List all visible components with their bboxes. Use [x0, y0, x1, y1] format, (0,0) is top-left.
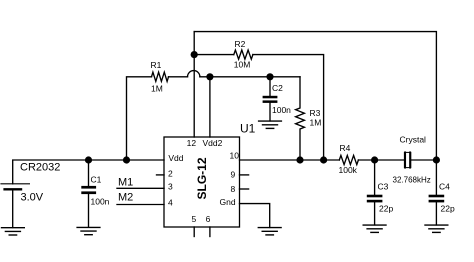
wire M2 to pin 4: [117, 204, 164, 206]
svg-text:C3: C3: [378, 182, 389, 192]
node junction Vdd2 branch: [206, 73, 213, 80]
wire R1 to hop: [169, 76, 188, 78]
resistor R1: [152, 72, 169, 81]
wire R4 to crystal: [358, 159, 404, 161]
svg-text:100k: 100k: [339, 165, 358, 175]
svg-text:Gnd: Gnd: [220, 197, 236, 207]
wire crystal right to node: [411, 159, 437, 161]
capacitor C2 plates: [263, 96, 278, 103]
svg-text:4: 4: [168, 198, 173, 208]
svg-text:1M: 1M: [151, 83, 163, 93]
ground (IC Gnd): [258, 228, 281, 235]
node junction C3 / crystal left: [371, 156, 378, 163]
svg-text:CR2032: CR2032: [20, 162, 60, 174]
svg-text:22p: 22p: [441, 203, 455, 213]
ground (C1): [77, 227, 100, 234]
svg-text:C4: C4: [439, 182, 450, 192]
node junction R3 bottom: [296, 156, 303, 163]
svg-text:U1: U1: [240, 122, 256, 136]
svg-text:R3: R3: [310, 108, 321, 118]
wire C3 top: [374, 160, 376, 195]
svg-text:10M: 10M: [234, 59, 251, 69]
node junction R1 branch on VDD rail: [123, 156, 130, 163]
wire C2 top: [269, 77, 271, 96]
capacitor C1 plates: [81, 186, 96, 194]
battery BT1 CR2032 short plate: [5, 188, 21, 190]
svg-text:100n: 100n: [272, 105, 291, 115]
battery BT1 CR2032 long plate: [1, 183, 29, 185]
wire top loop from pin12 net to crystal right node: [194, 32, 436, 160]
svg-text:32.768kHz: 32.768kHz: [393, 176, 431, 185]
node junction C1 on VDD rail: [85, 156, 92, 163]
svg-text:R2: R2: [235, 39, 246, 49]
IC U1 body SLG-12: [164, 137, 240, 227]
wire Gnd pin to ground: [240, 204, 270, 228]
svg-text:3.0V: 3.0V: [21, 192, 44, 204]
wire R2 right down to output rail: [253, 55, 324, 160]
capacitor C4 plates: [429, 195, 445, 203]
pin 2 stub: [157, 174, 165, 176]
wire C2 bottom to ground: [269, 103, 271, 121]
wire output rail pin 10: [240, 159, 340, 161]
pin 5 stub: [193, 227, 195, 237]
svg-text:R1: R1: [151, 60, 162, 70]
svg-text:M1: M1: [118, 176, 133, 188]
node junction R2 bottom: [320, 156, 327, 163]
resistor R3 vertical: [296, 77, 305, 160]
pin 9 stub: [240, 174, 249, 176]
svg-text:C1: C1: [91, 174, 102, 184]
svg-text:100n: 100n: [91, 196, 110, 206]
svg-text:C2: C2: [272, 83, 283, 93]
wire hop to C2 junction and R3: [200, 76, 300, 78]
wire C4 top: [435, 160, 437, 195]
svg-text:10: 10: [230, 151, 240, 161]
crystal body: [404, 152, 410, 167]
resistor R4: [339, 155, 358, 164]
ground (C2): [259, 121, 282, 128]
svg-text:2: 2: [168, 169, 173, 179]
wire top feedback (pin12 net) vertical: [193, 32, 195, 137]
pin 8 stub: [240, 188, 249, 190]
svg-text:22p: 22p: [379, 203, 393, 213]
svg-text:1M: 1M: [310, 118, 322, 128]
capacitor C3 plates: [367, 195, 383, 203]
svg-text:9: 9: [231, 170, 236, 180]
crystal left electrode: [404, 152, 406, 167]
wire C1 bottom to ground: [88, 194, 90, 227]
svg-text:3: 3: [168, 182, 173, 192]
svg-text:Vdd2: Vdd2: [203, 138, 223, 148]
resistor R2: [234, 50, 253, 59]
wire hop over pin12 line (no connection): [188, 71, 200, 77]
svg-text:SLG-12: SLG-12: [195, 157, 209, 199]
svg-text:8: 8: [231, 184, 236, 194]
svg-text:6: 6: [206, 214, 211, 224]
node junction C4 / crystal right / top loop: [433, 156, 440, 163]
pin 6 stub: [209, 227, 211, 237]
wire C4 bottom to ground: [435, 202, 437, 225]
wire battery positive rail to IC Vdd (net VDD): [13, 160, 164, 184]
svg-text:R4: R4: [340, 143, 351, 153]
node junction R2 on pin12 net: [191, 51, 198, 58]
crystal right electrode: [409, 152, 411, 167]
svg-text:Vdd: Vdd: [168, 153, 183, 163]
svg-text:Crystal: Crystal: [400, 135, 427, 145]
ground (C3): [363, 225, 386, 232]
svg-text:M2: M2: [118, 192, 133, 204]
wire R1 left vertical: [127, 77, 152, 160]
node junction C2 branch: [266, 73, 273, 80]
svg-text:12: 12: [187, 138, 197, 148]
wire Vdd2 pin vertical: [209, 77, 211, 137]
wire battery negative to ground: [12, 191, 14, 228]
wire C3 bottom to ground: [374, 202, 376, 225]
ground (battery): [2, 228, 25, 235]
ground (C4): [425, 225, 448, 232]
wire C1 top: [88, 160, 90, 186]
wire R2 left: [194, 54, 234, 56]
svg-text:5: 5: [192, 214, 197, 224]
wire M1 to pin 3: [117, 187, 164, 189]
